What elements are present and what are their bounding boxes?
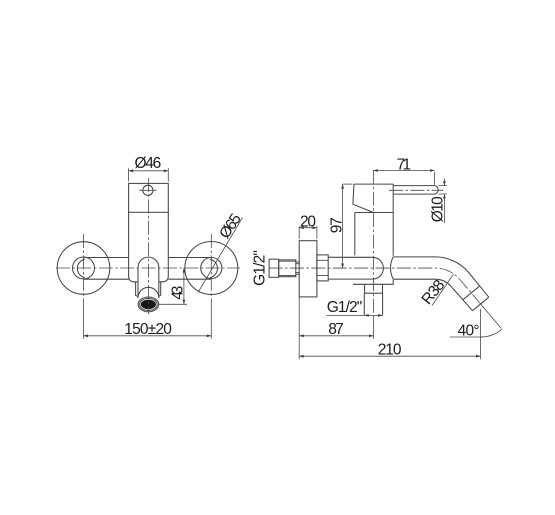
svg-text:87: 87 [328,321,344,338]
svg-text:Ø65: Ø65 [216,211,245,242]
svg-text:71: 71 [397,156,412,173]
svg-text:210: 210 [378,342,402,359]
svg-text:G1/2": G1/2" [251,250,268,286]
svg-text:150±20: 150±20 [124,321,172,338]
svg-text:43: 43 [169,286,186,300]
svg-text:20: 20 [300,213,316,230]
svg-text:G1/2": G1/2" [327,299,363,316]
svg-text:40°: 40° [458,323,480,340]
svg-text:Ø10: Ø10 [430,196,447,222]
svg-text:97: 97 [328,217,345,233]
svg-text:Ø46: Ø46 [135,155,162,172]
